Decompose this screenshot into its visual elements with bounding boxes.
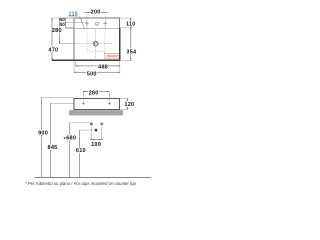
- bottom extension lines top view: [74, 60, 120, 73]
- dimension 50: [65, 23, 67, 28]
- waste drain diamond: [94, 129, 97, 132]
- svg-text:900: 900: [38, 130, 48, 136]
- counter top shadow bar: [69, 110, 123, 115]
- basin outline top view: [74, 18, 120, 61]
- svg-text:680: 680: [66, 136, 76, 142]
- floor line: [35, 176, 152, 178]
- dimension 900 tick: [41, 97, 74, 99]
- overflow hole circle: [96, 22, 99, 25]
- svg-text:110: 110: [126, 21, 136, 27]
- dimension 845 tick: [50, 102, 74, 104]
- dimension 470: [51, 18, 53, 60]
- tap hole cross right: [103, 21, 107, 25]
- hot water supply dot (red): [90, 123, 93, 126]
- dimension 100: [90, 139, 103, 141]
- svg-text:845: 845: [48, 145, 58, 151]
- ledge line (tap deck front): [66, 27, 120, 29]
- dimension 500: [74, 71, 120, 73]
- left extension ticks top view: [60, 18, 85, 28]
- dimension 60: [65, 18, 67, 23]
- basin bottom edge emphasized: [52, 59, 120, 61]
- red label box: [105, 53, 120, 58]
- dimension 110: [130, 18, 132, 28]
- basin front outline: [74, 99, 120, 110]
- cold water supply dot (teal): [100, 123, 103, 126]
- drain symbol: [93, 41, 98, 46]
- extension lines fixing holes: [82, 92, 84, 102]
- dimension 610: [78, 130, 80, 177]
- extension line from red dot: [90, 126, 92, 140]
- svg-text:115: 115: [69, 12, 78, 18]
- optional tap dashed line left (red): [86, 25, 88, 52]
- dimension 280 (fixing holes): [83, 91, 109, 93]
- svg-text:354: 354: [126, 49, 137, 55]
- dimension 200 (tap holes): [84, 11, 108, 13]
- dimension 120: [126, 98, 128, 109]
- optional tap dashed line right (red): [104, 25, 106, 52]
- dimension 610 tick (to waste): [79, 129, 94, 131]
- dimension 354: [130, 28, 132, 60]
- svg-text:200: 200: [91, 10, 101, 16]
- dimension 900: [40, 98, 42, 178]
- dimension 845: [49, 103, 51, 177]
- fixing hole cross right: [108, 102, 111, 105]
- drain centerline horizontal: [60, 43, 74, 45]
- svg-text:50: 50: [60, 22, 65, 27]
- tap hole extension line left: [86, 14, 88, 28]
- svg-text:500: 500: [87, 71, 97, 77]
- leader line for 115: [79, 16, 84, 29]
- tap hole cross left: [85, 21, 89, 25]
- svg-text:100: 100: [91, 142, 101, 148]
- dimension 488: [76, 65, 120, 67]
- svg-text:610: 610: [76, 148, 86, 154]
- dimension 280 (top to drain): [59, 18, 61, 44]
- right extension ticks top view: [120, 18, 132, 60]
- svg-text:470: 470: [48, 47, 58, 53]
- svg-text:A RICHIESTA: A RICHIESTA: [106, 54, 119, 58]
- dimension 120 extension lines: [120, 98, 129, 109]
- extension line from teal dot: [101, 126, 103, 140]
- drain centerline vertical: [95, 30, 97, 59]
- red leader to label: [103, 51, 106, 54]
- tap hole extension line right: [104, 14, 106, 28]
- svg-text:* Per rubinetto su piano / For: * Per rubinetto su piano / For taps moun…: [25, 181, 136, 186]
- optional tap dashed line bottom (red): [87, 50, 105, 52]
- svg-text:280: 280: [89, 91, 99, 97]
- dimension 680: [69, 123, 71, 177]
- fixing hole cross left: [82, 102, 85, 105]
- svg-text:488: 488: [98, 65, 108, 71]
- svg-text:120: 120: [124, 102, 134, 108]
- dimension 680 tick (to hot supply): [70, 122, 90, 124]
- svg-text:280: 280: [52, 28, 62, 34]
- basin right edge over label: [119, 53, 121, 59]
